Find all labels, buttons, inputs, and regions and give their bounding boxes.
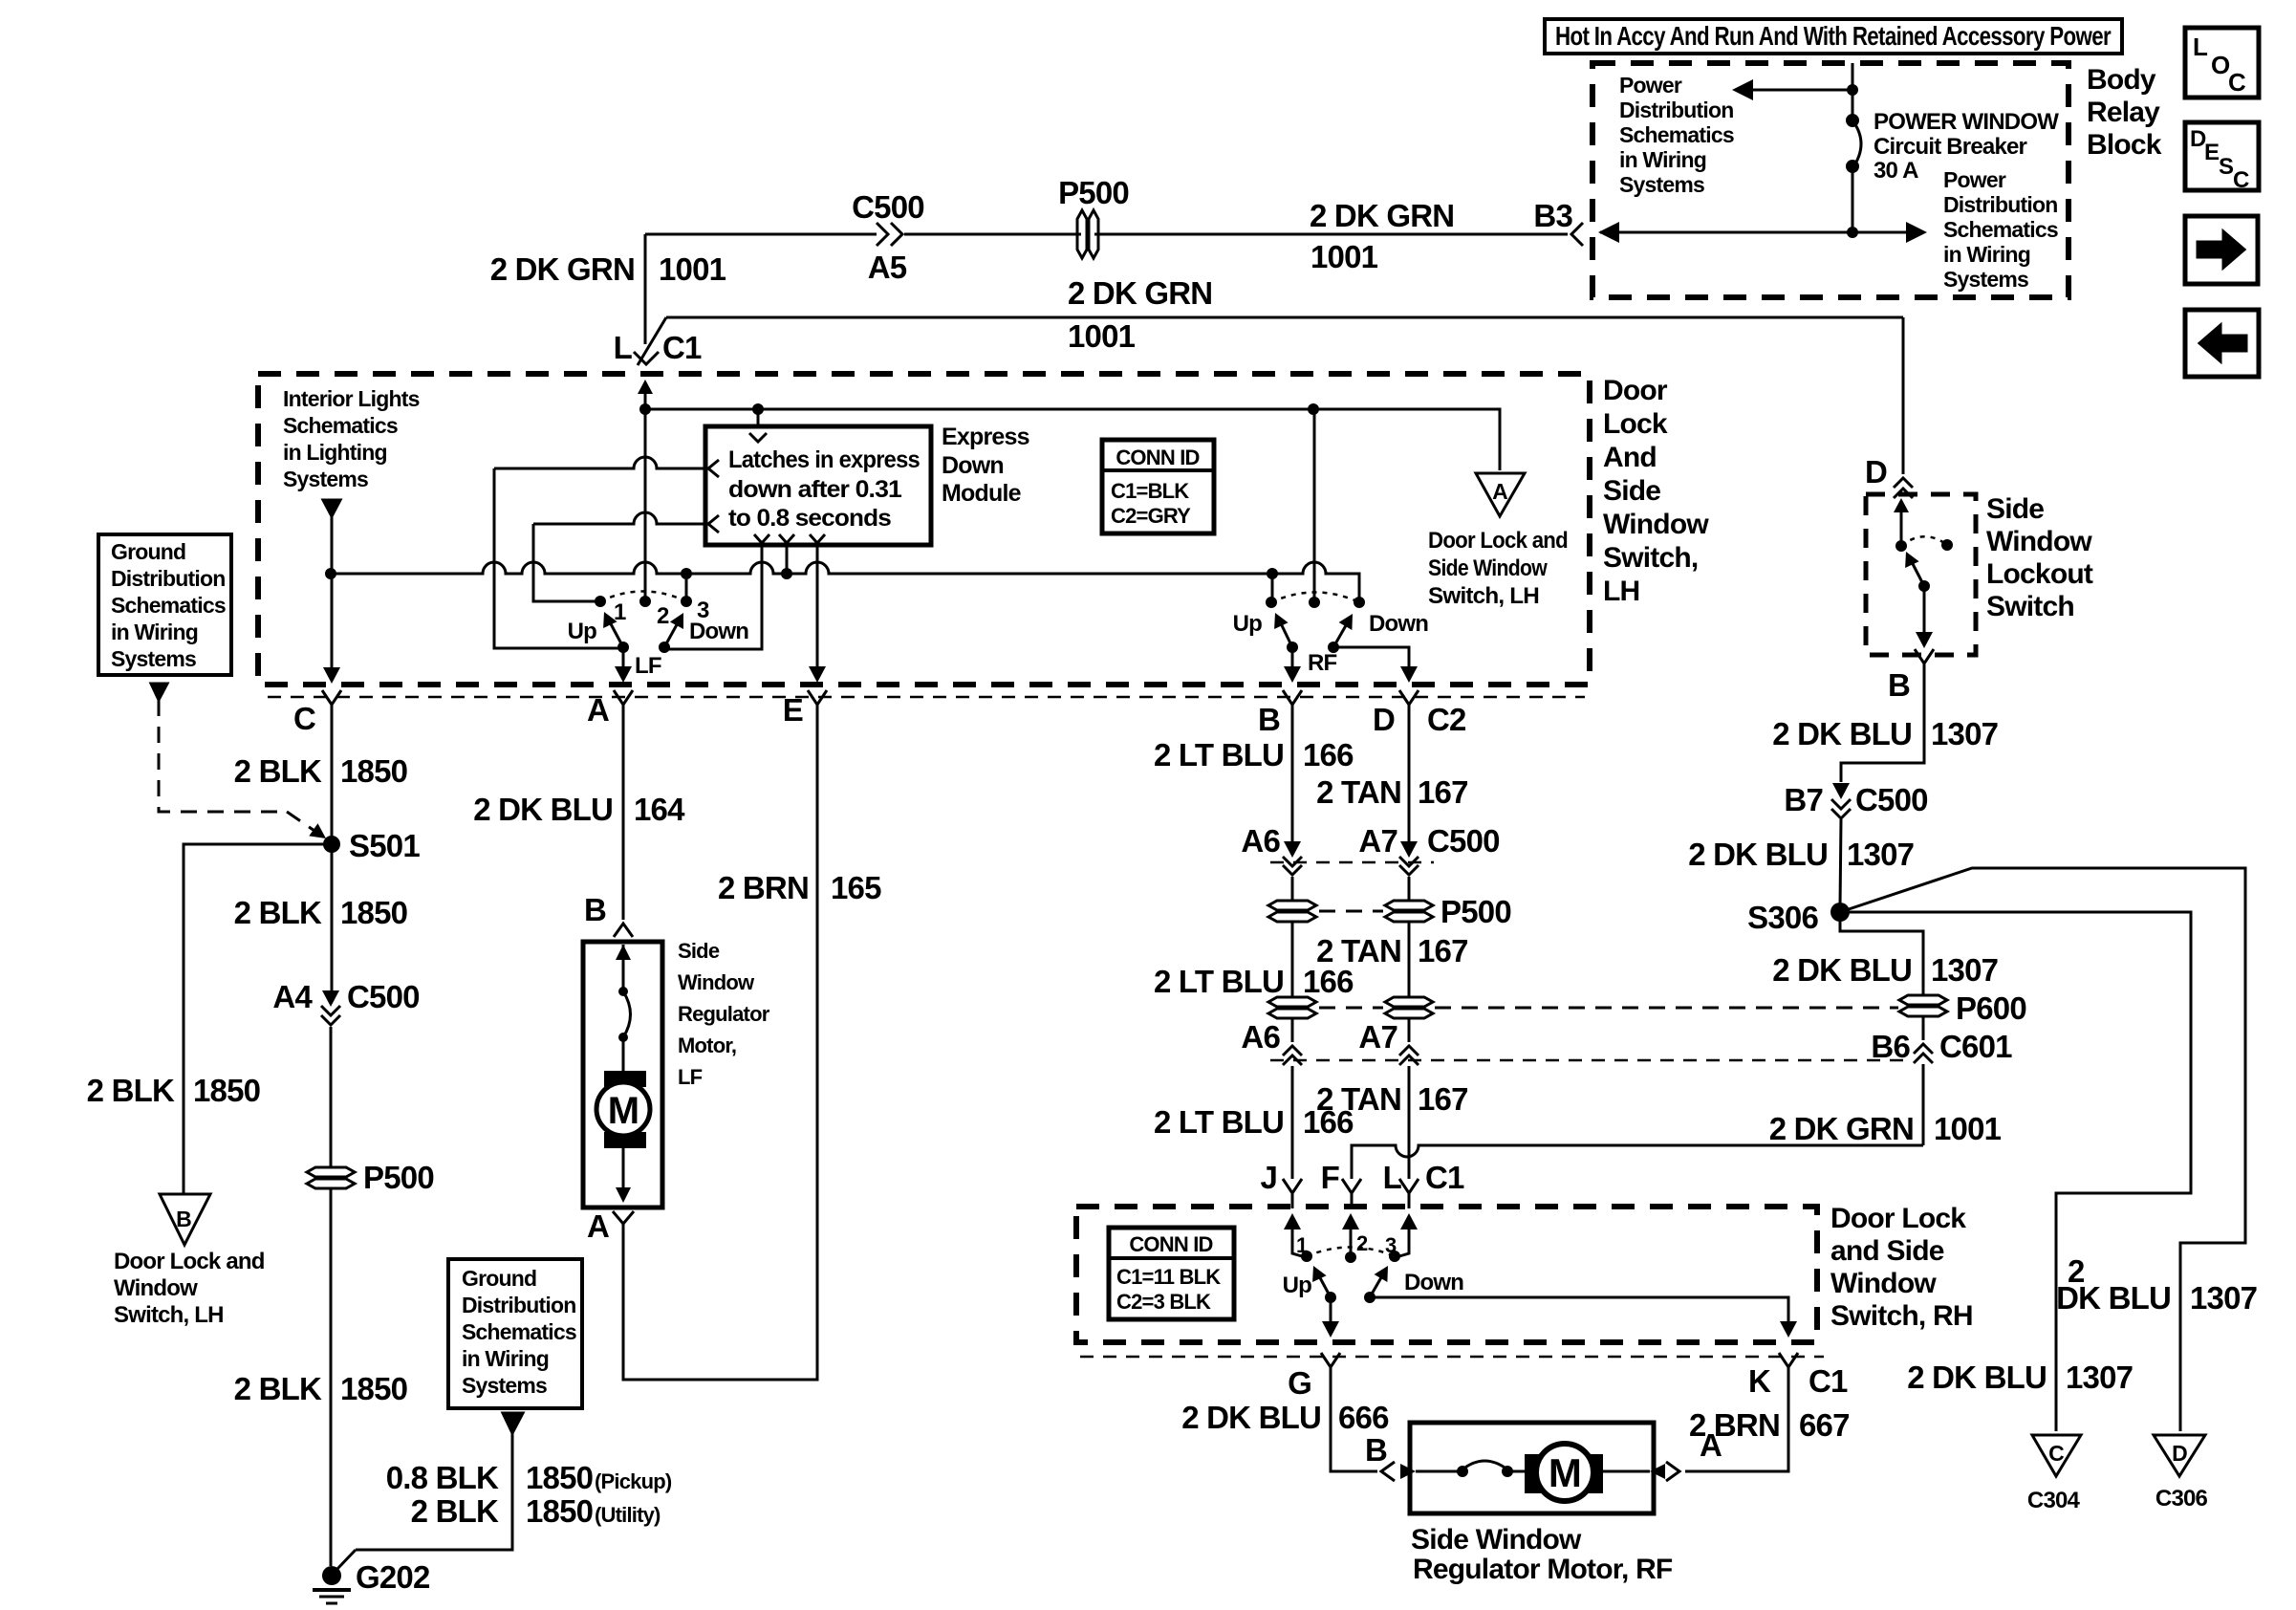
svg-text:2 DK BLU: 2 DK BLU (1772, 716, 1912, 751)
wire D down to connector L (1408, 1066, 1411, 1179)
svg-text:(Pickup): (Pickup) (595, 1469, 672, 1493)
svg-text:A6: A6 (1241, 1019, 1280, 1055)
junction dots on breaker wire (1847, 84, 1858, 96)
svg-text:in Lighting: in Lighting (283, 440, 387, 465)
nav box arrow right (2185, 216, 2258, 284)
svg-text:0.8 BLK: 0.8 BLK (386, 1460, 499, 1495)
splice S306 (1830, 903, 1850, 922)
svg-text:167: 167 (1418, 774, 1468, 810)
wire express-down network (long horizontal) (331, 562, 1359, 602)
connector B at lockout bottom (1915, 649, 1934, 670)
svg-text:Systems: Systems (1619, 172, 1704, 197)
svg-text:Side: Side (1603, 475, 1660, 507)
svg-text:S306: S306 (1747, 900, 1818, 935)
wire power rail from L C1 junction (644, 386, 647, 601)
svg-text:2 DK GRN: 2 DK GRN (1769, 1111, 1914, 1146)
svg-text:165: 165 (831, 870, 881, 905)
side window regulator motor RF box (1410, 1423, 1654, 1513)
wire B segment between grommets (1291, 923, 1294, 996)
svg-text:Distribution: Distribution (1943, 192, 2057, 217)
svg-text:1850: 1850 (526, 1493, 593, 1529)
svg-text:2 DK BLU: 2 DK BLU (1772, 952, 1912, 988)
svg-text:Switch, RH: Switch, RH (1830, 1300, 1973, 1332)
svg-text:C304: C304 (2027, 1488, 2081, 1513)
svg-text:DK BLU: DK BLU (2056, 1280, 2171, 1316)
svg-text:Down: Down (1404, 1270, 1463, 1295)
svg-text:1001: 1001 (659, 251, 726, 287)
svg-text:Up: Up (1283, 1273, 1312, 1298)
wire 2 DK GRN 1001 return to connector F (1352, 1145, 1923, 1179)
wire center feed to RF rocker (1313, 409, 1316, 602)
svg-text:Systems: Systems (283, 467, 368, 491)
switch RH contacts 1 2 3 (1301, 1251, 1312, 1262)
svg-text:2 TAN: 2 TAN (1316, 774, 1401, 810)
wire row3 drop to contact 1 (533, 524, 598, 601)
wire ground note to G202 (356, 1433, 512, 1550)
ground distribution schematics box (upper) (98, 534, 231, 675)
motor RF internal wire and brushes (1400, 1464, 1416, 1479)
svg-text:RF: RF (1308, 650, 1337, 676)
svg-text:Up: Up (1233, 611, 1263, 637)
svg-text:M: M (608, 1090, 639, 1132)
wire taps from express wire (685, 574, 688, 601)
svg-text:2 DK BLU: 2 DK BLU (473, 792, 613, 827)
wire RF down output to D (1333, 647, 1409, 668)
module left pin 1 (chevron) (708, 460, 719, 477)
svg-text:Schematics: Schematics (462, 1319, 576, 1344)
svg-text:1850: 1850 (340, 753, 407, 789)
svg-text:Express: Express (942, 424, 1029, 450)
svg-text:Relay: Relay (2087, 97, 2160, 128)
connector line C1 under RH switch (thin dashed) (1080, 1356, 1824, 1359)
svg-text:(Utility): (Utility) (595, 1503, 661, 1527)
svg-text:A4: A4 (272, 979, 313, 1014)
svg-text:Regulator: Regulator (678, 1002, 770, 1026)
svg-text:A: A (587, 1208, 609, 1244)
nav box DESC (2185, 122, 2259, 190)
lockout switch internals (1894, 498, 1909, 512)
switch RF (LH) contacts (1266, 597, 1277, 608)
svg-text:Down: Down (1369, 611, 1428, 637)
svg-text:B: B (1258, 702, 1280, 737)
svg-text:Ground: Ground (462, 1266, 536, 1291)
svg-text:Switch: Switch (1986, 591, 2074, 622)
svg-text:A5: A5 (868, 250, 907, 285)
junction dots on express wire (325, 568, 336, 579)
svg-text:2 DK BLU: 2 DK BLU (1907, 1360, 2047, 1395)
wire module output 2 to express wire (786, 545, 789, 574)
connector L C1 at switch header (638, 317, 666, 365)
svg-text:Door: Door (1603, 375, 1668, 406)
connector A6 inline (down) (1284, 841, 1301, 858)
svg-text:C500: C500 (1427, 823, 1500, 859)
wire module input row 2 (494, 457, 705, 468)
wire B6 down to corner (1922, 1064, 1925, 1145)
svg-text:M: M (1549, 1450, 1581, 1495)
svg-text:166: 166 (1303, 1104, 1354, 1140)
svg-text:L: L (1383, 1160, 1402, 1195)
svg-text:2: 2 (1356, 1231, 1368, 1255)
svg-text:B: B (584, 892, 606, 927)
svg-text:C500: C500 (1855, 782, 1928, 817)
svg-text:and Side: and Side (1830, 1235, 1944, 1267)
svg-text:in Wiring: in Wiring (1619, 147, 1706, 172)
svg-text:O: O (2211, 51, 2230, 79)
svg-text:C: C (2048, 1441, 2064, 1466)
wire arrow to power distribution (left) (1745, 89, 1852, 92)
circuit breaker CB 30A vertical wire (1852, 63, 1854, 122)
svg-text:1850: 1850 (340, 895, 407, 930)
svg-text:Latches in express: Latches in express (728, 446, 920, 473)
svg-text:1850: 1850 (526, 1460, 593, 1495)
svg-text:C1: C1 (1425, 1160, 1464, 1195)
svg-text:667: 667 (1799, 1407, 1850, 1443)
side window lockout switch dashed box (1866, 494, 1976, 655)
svg-text:1001: 1001 (1068, 318, 1136, 354)
svg-text:30 A: 30 A (1874, 158, 1918, 184)
svg-text:C: C (293, 701, 315, 736)
grommet P500 on top power line (1077, 210, 1098, 258)
svg-text:Distribution: Distribution (111, 566, 225, 591)
svg-text:1001: 1001 (1934, 1111, 2002, 1146)
svg-text:C: C (2233, 167, 2249, 193)
wire B7 to S306 (1840, 819, 1841, 906)
wire B segment to P500 (1291, 877, 1294, 900)
nav box LOC (2185, 28, 2259, 98)
svg-text:in Wiring: in Wiring (1943, 242, 2030, 267)
ground distribution triangle (lower) (503, 1413, 523, 1433)
svg-text:Door Lock and: Door Lock and (1428, 528, 1568, 554)
connector boundary C500 (thin dashed) (1270, 861, 1434, 864)
svg-text:POWER WINDOW: POWER WINDOW (1874, 109, 2059, 135)
svg-text:LF: LF (635, 653, 661, 679)
svg-text:2: 2 (657, 603, 669, 629)
express down module box (705, 426, 931, 545)
svg-text:P500: P500 (1440, 894, 1511, 929)
svg-text:L: L (614, 330, 633, 365)
svg-text:2 DK BLU: 2 DK BLU (1688, 837, 1828, 872)
side window regulator motor LF box (583, 942, 662, 1207)
wire B below grommets (1291, 1019, 1294, 1042)
svg-text:666: 666 (1338, 1400, 1389, 1435)
svg-text:1307: 1307 (1931, 716, 1998, 751)
svg-text:S501: S501 (349, 828, 420, 863)
svg-text:CONN ID: CONN ID (1116, 446, 1199, 469)
svg-text:A6: A6 (1241, 823, 1280, 859)
svg-text:Window: Window (114, 1275, 198, 1301)
connector B at motor LF (614, 924, 633, 937)
svg-text:L: L (2193, 33, 2208, 61)
svg-text:K: K (1748, 1363, 1771, 1399)
svg-text:1850: 1850 (340, 1371, 407, 1406)
wire S306 to C306 (top branch) (1840, 868, 2245, 1431)
svg-text:2 LT BLU: 2 LT BLU (1154, 737, 1284, 772)
module left pin 2 (chevron) (708, 515, 719, 533)
svg-text:G202: G202 (356, 1559, 430, 1595)
svg-text:D: D (1373, 702, 1395, 737)
wire A4 to P500 grommet (330, 1027, 333, 1166)
svg-text:B: B (1888, 667, 1910, 703)
connector A at motor RF (1666, 1462, 1679, 1481)
svg-text:Systems: Systems (1943, 267, 2028, 292)
module bottom pins (chevrons) (754, 534, 769, 543)
connector B6 C601 inline (1914, 1044, 1933, 1054)
interior lights feed triangle (323, 500, 340, 516)
conn id table LH (1102, 440, 1214, 533)
svg-text:Window: Window (1603, 509, 1709, 540)
svg-text:Regulator Motor, RF: Regulator Motor, RF (1413, 1554, 1673, 1585)
door lock and side window switch RH dashed box (1076, 1207, 1817, 1342)
svg-text:S: S (2219, 154, 2234, 180)
svg-text:2 DK GRN: 2 DK GRN (490, 251, 635, 287)
svg-text:Ground: Ground (111, 539, 185, 564)
svg-text:C2=3 BLK: C2=3 BLK (1116, 1290, 1211, 1314)
svg-text:LF: LF (678, 1065, 703, 1089)
svg-text:C1=BLK: C1=BLK (1111, 479, 1189, 503)
svg-text:2 DK BLU: 2 DK BLU (1181, 1400, 1321, 1435)
connector A7 inline (up) (1399, 1046, 1419, 1055)
switch RF (LH) pivots and arms (1287, 642, 1298, 653)
connector line C1 under LH switch (thin dashed) (268, 696, 1585, 699)
svg-text:A: A (1700, 1427, 1722, 1463)
svg-text:167: 167 (1418, 933, 1468, 968)
connector A4 C500 inline (322, 990, 339, 1007)
svg-text:167: 167 (1418, 1081, 1468, 1117)
svg-text:P600: P600 (1956, 990, 2026, 1026)
connector A7 C500 inline (down) (1400, 841, 1418, 858)
connector boundary C601 (thin dashed) (1270, 1059, 1907, 1062)
wire B down to connector J (1291, 1066, 1294, 1179)
switch LF pivots and arms (617, 642, 629, 653)
nav box arrow left (2185, 310, 2259, 377)
connector B7 C500 inline (1832, 783, 1850, 799)
offpage triangle B (door lock and window switch LH) (160, 1194, 210, 1245)
svg-text:Switch, LH: Switch, LH (1428, 583, 1539, 609)
wire LF output to connector A (622, 647, 625, 668)
svg-text:A7: A7 (1358, 823, 1397, 859)
wire D segment between grommets (1408, 923, 1411, 996)
wire RF up output to B (1291, 647, 1294, 668)
svg-text:Down: Down (689, 619, 748, 644)
motor RF M symbol (1525, 1454, 1603, 1493)
svg-text:166: 166 (1303, 964, 1354, 999)
svg-text:Side: Side (678, 939, 720, 963)
conn id table RH (1109, 1228, 1234, 1319)
svg-text:Distribution: Distribution (462, 1293, 575, 1317)
svg-text:Hot In Accy And Run And With R: Hot In Accy And Run And With Retained Ac… (1555, 21, 2112, 51)
wire S306 to C304 (middle branch) (1840, 912, 2191, 1431)
wire S501 to door lock and window switch LH (B triangle) (184, 844, 332, 1193)
wire module output 1 to down pivot (664, 545, 762, 649)
svg-text:B: B (176, 1207, 191, 1231)
dashed link between P500 grommets (1319, 910, 1383, 913)
svg-text:Distribution: Distribution (1619, 98, 1733, 122)
svg-text:Power: Power (1943, 167, 2006, 192)
svg-text:Side: Side (1986, 493, 2044, 525)
wire P600 to B6 C601 (1922, 1017, 1925, 1040)
svg-text:Body: Body (2087, 64, 2156, 96)
svg-text:1307: 1307 (2066, 1360, 2133, 1395)
svg-text:C2=GRY: C2=GRY (1111, 504, 1191, 528)
svg-text:D: D (1865, 454, 1887, 490)
svg-text:E: E (2204, 140, 2220, 165)
svg-text:Window: Window (1830, 1268, 1937, 1299)
svg-text:P500: P500 (1058, 175, 1129, 210)
header box: Hot In Accy And Run And With Retained Accessory Power (1545, 19, 2122, 54)
wire module output 3 (E) (816, 545, 819, 668)
wire D below grommets (1408, 1019, 1411, 1042)
svg-text:Power: Power (1619, 73, 1682, 98)
offpage triangle A (door lock and side window switch LH) (1476, 473, 1525, 516)
svg-text:Door Lock and: Door Lock and (114, 1249, 265, 1274)
svg-text:1850: 1850 (193, 1073, 260, 1108)
svg-text:2 BLK: 2 BLK (234, 753, 322, 789)
wire S501 down to A4 C500 (331, 844, 334, 990)
svg-text:A7: A7 (1358, 1019, 1397, 1055)
motor LF lower wire (622, 1136, 625, 1189)
connector A6 inline (up) (1283, 1046, 1302, 1055)
svg-text:F: F (1321, 1160, 1339, 1195)
svg-text:And: And (1603, 442, 1657, 473)
svg-text:2 DK GRN: 2 DK GRN (1310, 198, 1454, 233)
svg-text:CONN ID: CONN ID (1129, 1232, 1212, 1256)
splice S501 (323, 836, 340, 853)
svg-text:Circuit Breaker: Circuit Breaker (1874, 134, 2027, 160)
door lock and side window switch LH dashed box (258, 374, 1590, 685)
svg-text:down after 0.31: down after 0.31 (728, 476, 902, 503)
wire power rail to module top pin (757, 409, 760, 426)
svg-text:164: 164 (634, 792, 685, 827)
svg-text:A: A (587, 692, 609, 728)
svg-text:C1=11 BLK: C1=11 BLK (1116, 1265, 1221, 1289)
dashed link P600 row (1319, 1007, 1383, 1010)
svg-text:3: 3 (1385, 1233, 1397, 1257)
motor LF M symbol (604, 1071, 646, 1087)
wire row2 drop to up pivot (494, 468, 621, 648)
wire S306 down to P600 (1840, 912, 1923, 994)
svg-text:Down: Down (942, 452, 1004, 479)
svg-text:C306: C306 (2155, 1486, 2208, 1512)
svg-text:C: C (2228, 68, 2246, 97)
wire D segment to P500 (1408, 877, 1411, 900)
svg-text:Schematics: Schematics (283, 413, 398, 438)
svg-text:B3: B3 (1533, 198, 1572, 233)
ground distribution triangle (upper) (151, 684, 167, 700)
wire P500 to G202 (330, 1189, 333, 1566)
svg-text:in Wiring: in Wiring (111, 620, 198, 644)
svg-text:P500: P500 (363, 1160, 434, 1195)
svg-text:B7: B7 (1784, 782, 1823, 817)
motor LF internal wire and brushes (616, 945, 631, 960)
svg-text:Motor,: Motor, (678, 1033, 736, 1057)
ground G202 (322, 1566, 341, 1585)
wire module input row 3 (533, 512, 705, 524)
svg-text:C2: C2 (1427, 702, 1466, 737)
svg-text:Lockout: Lockout (1986, 558, 2093, 590)
svg-text:2 BLK: 2 BLK (234, 1371, 322, 1406)
offpage triangle C (C304) (2032, 1435, 2081, 1476)
svg-text:E: E (783, 692, 803, 728)
svg-text:1307: 1307 (1931, 952, 1998, 988)
wire lockout B to B7 C500 (1841, 670, 1924, 782)
connector B at motor RF (1381, 1462, 1395, 1481)
svg-text:Systems: Systems (462, 1373, 547, 1398)
svg-text:in Wiring: in Wiring (462, 1346, 549, 1371)
junction dots on power rail (639, 403, 651, 415)
wire RH up output to G (1330, 1297, 1332, 1323)
wire vertical drop to L C1 (644, 234, 647, 344)
svg-text:2 BLK: 2 BLK (87, 1073, 175, 1108)
svg-text:Door Lock: Door Lock (1830, 1203, 1966, 1234)
svg-text:Systems: Systems (111, 646, 196, 671)
svg-text:Switch, LH: Switch, LH (114, 1302, 224, 1328)
svg-text:Switch,: Switch, (1603, 542, 1698, 574)
svg-text:Window: Window (678, 970, 755, 994)
svg-text:2 BRN: 2 BRN (718, 870, 809, 905)
switch LF contacts 1 2 3 (595, 596, 606, 607)
svg-text:166: 166 (1303, 737, 1354, 772)
svg-text:Schematics: Schematics (111, 593, 226, 618)
svg-text:C500: C500 (852, 189, 924, 225)
svg-text:2 BLK: 2 BLK (234, 895, 322, 930)
svg-text:2 LT BLU: 2 LT BLU (1154, 964, 1284, 999)
svg-text:G: G (1288, 1365, 1311, 1401)
connector A at motor LF bottom (613, 1211, 634, 1241)
wire RH down output to K (1370, 1297, 1788, 1323)
wire interior lights ground feed (down to C) (331, 516, 334, 669)
svg-text:Side Window: Side Window (1411, 1524, 1582, 1556)
svg-text:Up: Up (568, 619, 597, 644)
svg-text:1: 1 (1296, 1233, 1308, 1257)
grommet P500 pair (1268, 901, 1316, 922)
svg-text:Module: Module (942, 480, 1022, 507)
svg-text:C1: C1 (662, 330, 702, 365)
wire 2 DK GRN 1001 second run (666, 316, 1903, 319)
svg-text:Schematics: Schematics (1943, 217, 2058, 242)
svg-text:1001: 1001 (1310, 239, 1378, 274)
svg-text:B: B (1365, 1432, 1387, 1468)
svg-text:Interior Lights: Interior Lights (283, 386, 420, 411)
switch RH pivots and arms (1325, 1292, 1336, 1303)
svg-text:1307: 1307 (2190, 1280, 2257, 1316)
svg-text:2 LT BLU: 2 LT BLU (1154, 1104, 1284, 1140)
wire 2 DK GRN 1001 top power line (645, 233, 877, 236)
ground distribution schematics box (lower) (448, 1259, 582, 1408)
svg-text:Schematics: Schematics (1619, 122, 1734, 147)
svg-text:2 DK GRN: 2 DK GRN (1068, 275, 1212, 311)
connector C500 A5 inline (double chevron) (877, 223, 888, 246)
offpage triangle D (C306) (2154, 1435, 2205, 1476)
svg-text:Side Window: Side Window (1428, 555, 1548, 581)
body relay block dashed box (1592, 63, 2069, 297)
grommet P600 row grommets (1268, 997, 1316, 1018)
svg-text:B6: B6 (1871, 1029, 1910, 1064)
svg-text:to 0.8 seconds: to 0.8 seconds (728, 505, 891, 532)
svg-text:C500: C500 (347, 979, 420, 1014)
svg-text:1307: 1307 (1847, 837, 1914, 872)
svg-text:Block: Block (2087, 129, 2162, 161)
svg-text:D: D (2172, 1441, 2187, 1466)
svg-text:LH: LH (1603, 576, 1639, 607)
grommet P600 (1899, 995, 1947, 1016)
svg-text:Lock: Lock (1603, 408, 1668, 440)
svg-text:C1: C1 (1809, 1363, 1848, 1399)
wire B3 feed inside body relay block (1600, 231, 1921, 234)
svg-text:A: A (1492, 479, 1507, 504)
svg-text:2 BLK: 2 BLK (411, 1493, 499, 1529)
svg-text:Window: Window (1986, 526, 2092, 557)
switch RH pin wires (1284, 1213, 1301, 1229)
